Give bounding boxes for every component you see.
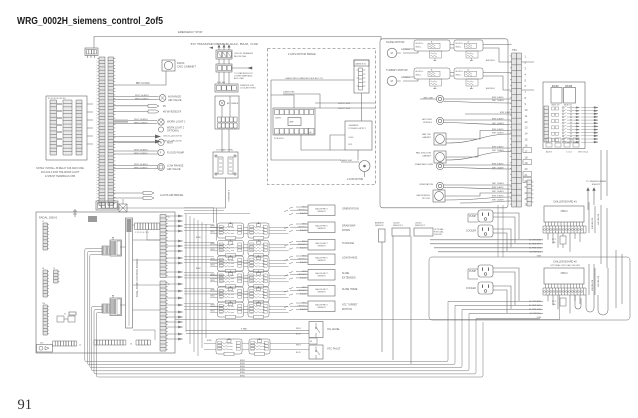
circuit breaker pole hatches [218, 52, 232, 58]
svg-text:AU3 B: AU3 B [546, 151, 552, 154]
svg-text:CHILLER BOARD #1: CHILLER BOARD #1 [553, 201, 577, 204]
wire strip to fans [114, 71, 167, 85]
svg-text:BRN4: BRN4 [240, 369, 245, 371]
wire coolant thru down [225, 178, 227, 208]
arrow into label [209, 47, 213, 49]
svg-text:SENSOR: SENSOR [318, 211, 327, 213]
chiller 2 terminal strip [543, 288, 586, 295]
svg-text:WHT 16 AWG: WHT 16 AWG [492, 149, 504, 152]
svg-text:SERVO BRN: SERVO BRN [338, 103, 351, 105]
filter cluster row 4 col 1 [218, 271, 244, 289]
chiller 2 label wires right [507, 301, 543, 313]
svg-text:HALL EFFECT: HALL EFFECT [315, 224, 328, 227]
svg-text:8 PAD: 8 PAD [241, 328, 248, 331]
relay box column 2 [63, 100, 72, 155]
svg-text:HALL EFFECT: HALL EFFECT [315, 256, 328, 259]
atc fault interconnect wires [204, 343, 309, 349]
svg-text:MIST: MIST [167, 140, 174, 144]
fadal T1 component [57, 316, 64, 322]
chiller 2 strip pins [546, 284, 583, 288]
filter row 2 interconnect wires [210, 245, 289, 251]
svg-text:BRN 16 AWG: BRN 16 AWG [492, 117, 504, 120]
svg-text:LOW RANGE: LOW RANGE [167, 164, 184, 168]
svg-text:COOLANT THRU: COOLANT THRU [240, 87, 256, 90]
svg-text:DUAL-TEMP CONTROL BOARD: DUAL-TEMP CONTROL BOARD [135, 259, 139, 297]
wire air lube to tb1 [420, 98, 512, 100]
svg-text:J8: J8 [42, 268, 44, 270]
svg-text:BRN 16 AWG: BRN 16 AWG [492, 195, 504, 198]
actuator circle draw bar down [436, 162, 443, 169]
connector squiggle box slide B [465, 43, 479, 60]
svg-text:4 WRS/BLU: 4 WRS/BLU [227, 190, 229, 202]
emergency stop contacts [86, 50, 96, 55]
svg-text:10AWG RED: 10AWG RED [283, 91, 295, 94]
svg-text:SENSOR: SENSOR [318, 307, 327, 309]
circuit breaker poles [218, 52, 232, 58]
chiller 2 u-turn wires [575, 264, 608, 315]
oil level switch box [309, 322, 323, 338]
svg-text:K8: K8 [310, 341, 312, 343]
svg-text:SPINDLE: SPINDLE [423, 122, 433, 124]
sensor drop wires [382, 236, 411, 364]
fuse on stalk above fadal [119, 204, 127, 212]
transformer feed arrows [218, 45, 230, 50]
fan-out wire merges [166, 216, 178, 339]
work light 2 circle [158, 127, 163, 132]
svg-text:BRN6: BRN6 [240, 375, 245, 377]
sensor lead wires slide [284, 272, 308, 280]
fadal J7 strip [43, 223, 48, 250]
interface board rows [562, 107, 564, 109]
interface relay K3K4 [564, 88, 576, 104]
coolant plug col2 [228, 157, 233, 174]
svg-text:BRN5: BRN5 [196, 237, 201, 239]
svg-text:J7: J7 [42, 221, 44, 223]
svg-text:SLIDE: SLIDE [342, 272, 350, 275]
atc fault switch symbol [316, 347, 320, 359]
cannon pin column [359, 68, 363, 90]
svg-text:COVER WASH AND: COVER WASH AND [234, 75, 253, 78]
wires orientation to tb1 [444, 185, 512, 189]
connector above fadal [96, 201, 118, 210]
svg-text:BL PWR WHT: BL PWR WHT [597, 276, 599, 288]
wire emergency stop run [94, 37, 381, 49]
svg-text:DOWN: DOWN [342, 229, 350, 232]
filter row 6 interconnect wires [210, 306, 289, 312]
dashed enclosure 2 axis motor brake [268, 49, 376, 185]
wires draw bar to tb1 [444, 165, 512, 169]
brake internal routing [271, 93, 362, 150]
svg-text:OPTIONAL FOR DUAL CHILLER: OPTIONAL FOR DUAL CHILLER [550, 264, 580, 267]
svg-text:J3/EX1: J3/EX1 [275, 118, 282, 120]
relay box column 1 [50, 100, 57, 155]
svg-text:91: 91 [18, 397, 33, 413]
svg-text:WHT-16 AWG: WHT-16 AWG [134, 163, 148, 166]
svg-text:J2: J2 [168, 284, 170, 286]
cooler 1 outlet body [478, 225, 493, 237]
svg-text:BRN 16 AWG: BRN 16 AWG [492, 186, 504, 189]
svg-text:BRN2: BRN2 [240, 363, 245, 365]
svg-text:LOW RANGE: LOW RANGE [342, 257, 358, 260]
branch arrow to starters [232, 67, 252, 69]
wires to flood pump [114, 151, 158, 154]
fan circle [164, 61, 172, 69]
svg-text:HI RANGE: HI RANGE [342, 242, 354, 245]
hall effect sensor box slide home [308, 286, 335, 297]
svg-text:PCB-0220: PCB-0220 [274, 138, 284, 140]
wires contactor to fuse block [219, 72, 229, 84]
fan-out arrowheads [178, 215, 184, 341]
svg-text:BRN 16 AWG: BRN 16 AWG [500, 111, 512, 114]
wires fan spindle to tb1 [445, 193, 512, 203]
svg-text:BELOW 30A: BELOW 30A [234, 55, 246, 58]
svg-text:SENSOR: SENSOR [375, 225, 384, 227]
main terminal strip wire number labels [96, 60, 98, 200]
svg-text:BRN5: BRN5 [211, 226, 215, 228]
svg-text:BRN-16 AWG: BRN-16 AWG [134, 152, 148, 155]
motor leads turret motor [397, 80, 401, 82]
svg-text:TO TRANSFORMER: TO TRANSFORMER [586, 180, 607, 183]
svg-text:PUMP: PUMP [469, 215, 476, 218]
atc brake terminals [218, 117, 238, 122]
svg-text:W/SLD-: W/SLD- [456, 75, 462, 77]
svg-text:CHILLER BOARD #2: CHILLER BOARD #2 [553, 261, 577, 264]
interface board left pin column [544, 106, 549, 142]
svg-text:M: M [160, 140, 162, 144]
wires to hi range valve [114, 97, 159, 100]
aux connector pins [532, 182, 534, 202]
svg-text:NOTE1: INSTALL J5 RELAY K26 AN: NOTE1: INSTALL J5 RELAY K26 AND FUSE [36, 167, 84, 170]
svg-text:1 2 3 4 5 6 7 8 9: 1 2 3 4 5 6 7 8 9 [135, 232, 149, 234]
svg-text:J1: J1 [168, 217, 170, 219]
svg-text:R7.2: R7.2 [552, 301, 556, 303]
chiller 1 label wires right [507, 240, 543, 252]
relay box A left outline [46, 96, 87, 160]
wires atc brake to coolant box [222, 129, 229, 152]
fan box fan spindle motor [433, 190, 445, 202]
relay box wires to strip [87, 104, 93, 144]
coolant plug screw br [234, 173, 236, 175]
svg-text:MOTOR: MOTOR [422, 198, 430, 200]
svg-text:SIEMENS: SIEMENS [349, 125, 359, 127]
coolant plug screw tr [234, 155, 236, 157]
bottom wire bundle [85, 249, 483, 378]
actuator circle air lube [436, 95, 443, 102]
svg-text:& SHUNT TERMINALS CB5: & SHUNT TERMINALS CB5 [45, 175, 76, 178]
interface board mid cells [552, 107, 555, 110]
svg-text:FAN JUNCTION: FAN JUNCTION [416, 152, 432, 155]
servo wires [315, 103, 376, 108]
svg-text:WHT 16 AWG: WHT 16 AWG [492, 99, 504, 102]
svg-text:1560-0: 1560-0 [560, 211, 568, 213]
fadal internal routing wires [120, 225, 160, 340]
filter cluster row 1 col 2 [248, 222, 269, 240]
pcb bottom terminal row [275, 129, 309, 135]
cannon pins [357, 70, 366, 86]
hall effect sensor box slide [308, 270, 335, 281]
connector loop turret A [414, 68, 450, 79]
wires breaker to contactor [219, 59, 229, 64]
svg-text:M: M [391, 51, 393, 55]
work light cross [159, 120, 163, 124]
hall effect sensor box draw bar [308, 222, 335, 233]
svg-text:W/SLD-: W/SLD- [456, 47, 462, 49]
motor 2 axis hub [364, 165, 366, 167]
oil level relay tag [309, 338, 317, 344]
connector loop slide B [454, 40, 483, 51]
svg-text:K1 K2 K3 K4 K5 K6: K1 K2 K3 K4 K5 K6 [48, 98, 66, 100]
amp relay box [288, 118, 301, 126]
svg-text:RED5: RED5 [211, 280, 215, 282]
svg-text:OPTIONAL: OPTIONAL [167, 130, 180, 133]
motor circle slide motor [387, 48, 397, 58]
svg-text:FADAL 1050-0: FADAL 1050-0 [39, 216, 58, 220]
svg-text:ORIENTATION: ORIENTATION [419, 183, 433, 186]
flood pump circle [158, 149, 164, 155]
hall effect sensor box hi range [308, 240, 335, 251]
coolant plug col1 [218, 157, 223, 174]
svg-text:B2A B72: B2A B72 [592, 183, 601, 186]
enclosure chiller 2 optional [429, 257, 630, 320]
svg-text:BLK/SLD+: BLK/SLD+ [456, 43, 464, 45]
svg-text:DRAW BAR: DRAW BAR [342, 225, 356, 228]
svg-text:GRD 134-0: GRD 134-0 [578, 152, 589, 154]
interface board bottom cell groups [546, 138, 552, 142]
svg-text:A/B RED4: A/B RED4 [486, 87, 495, 90]
svg-text:2 AXIS MOTOR: 2 AXIS MOTOR [347, 178, 364, 181]
fuse block cells [217, 86, 237, 91]
fadal K26 relay box [37, 345, 53, 353]
svg-text:RED5: RED5 [211, 249, 215, 251]
svg-text:HALL EFFECT: HALL EFFECT [315, 272, 328, 275]
cooler 1 outlet ground [484, 233, 487, 236]
transformer arrows right [587, 188, 595, 199]
fadal top pin symbol [73, 209, 77, 217]
svg-text:CABINET: CABINET [422, 136, 432, 139]
chiller 1 strip screws [544, 229, 546, 231]
actuator inner air lube [438, 97, 441, 100]
svg-text:AIR VALVE: AIR VALVE [167, 167, 181, 171]
actuator inner orientation coil [438, 184, 441, 187]
filter cluster row 3 col 1 [218, 255, 244, 273]
cannon connector label box [354, 60, 369, 66]
sensor lead wires low range [284, 256, 308, 264]
svg-text:SENSOR: SENSOR [318, 228, 327, 230]
svg-text:BRN-16 AWG: BRN-16 AWG [134, 121, 148, 124]
interface board row exit stubs [581, 107, 598, 143]
atc brake fuse circle [219, 100, 225, 106]
tick marks below e-stop [88, 56, 95, 59]
work light circle [158, 119, 164, 125]
svg-text:J6: J6 [130, 344, 132, 346]
valve low range circle [158, 164, 165, 171]
chiller 2 right verticals [589, 264, 595, 295]
svg-text:BLU3: BLU3 [296, 334, 301, 336]
svg-text:CIRCUIT BREAKER: CIRCUIT BREAKER [234, 52, 253, 55]
filter cluster row 2 col 1 [218, 240, 244, 258]
filter cluster atc fault col 1 [216, 338, 242, 356]
valve low range inner [159, 165, 163, 169]
TB1 boxed numbers [523, 148, 532, 153]
svg-text:RED5: RED5 [211, 232, 215, 234]
coolant plug screw bl [215, 173, 217, 175]
sensor lead wires draw bar [284, 224, 308, 232]
fadal ribbon connector 2 plug [102, 304, 109, 313]
connector loop slide A [414, 40, 450, 51]
svg-text:WHT 16 AWG: WHT 16 AWG [492, 190, 504, 193]
coolant plug screw tl [215, 155, 217, 157]
contactor poles [218, 66, 232, 71]
interface board outline [543, 82, 585, 149]
svg-text:RED3: RED3 [296, 345, 301, 347]
svg-text:R7.2: R7.2 [552, 239, 556, 241]
svg-text:TO STARTERS FOR: TO STARTERS FOR [234, 72, 253, 75]
atc brake terminals row2 [218, 123, 238, 128]
svg-text:ATC FAULT: ATC FAULT [327, 347, 341, 351]
svg-text:BL PWR BRN: BL PWR BRN [591, 280, 593, 292]
ambient sensor body [379, 229, 386, 242]
wires to arrow connectors [114, 137, 156, 142]
svg-text:COOLANT THRU: COOLANT THRU [216, 149, 234, 152]
svg-text:WHT 16 AWG: WHT 16 AWG [492, 166, 504, 169]
svg-text:F16 AU2-0 FOR THE WORK LIGHT: F16 AU2-0 FOR THE WORK LIGHT [41, 171, 80, 174]
svg-text:DRAW BAR DOWN: DRAW BAR DOWN [415, 163, 434, 166]
interface relay K1K2 [551, 88, 562, 104]
svg-text:BL PWR BRN: BL PWR BRN [591, 218, 593, 230]
svg-text:K26: K26 [40, 343, 43, 345]
svg-text:CB5-G3--AU2-B-P44: CB5-G3--AU2-B-P44 [163, 135, 183, 138]
svg-text:SLIDE HOME: SLIDE HOME [342, 288, 358, 291]
svg-text:BRN 16 AWG: BRN 16 AWG [492, 128, 504, 131]
pcb +B cell [308, 129, 314, 135]
chiller 2 strip screws [544, 291, 546, 293]
svg-text:CNC CABINET: CNC CABINET [177, 65, 196, 69]
filter row 1 interconnect wires [210, 227, 289, 233]
wire to mist [114, 142, 158, 144]
svg-text:W/SLD-: W/SLD- [416, 47, 422, 49]
pump cooler 2 wires [468, 268, 519, 313]
svg-text:CABINET: CABINET [422, 154, 432, 157]
svg-text:BRN5: BRN5 [211, 243, 215, 245]
siemens power supply box [345, 121, 372, 150]
cooler 2 outlet ground [484, 290, 487, 293]
sensor lead wires orientation [284, 207, 308, 215]
svg-text:RED3: RED3 [296, 328, 301, 330]
filter cluster row 4 col 2 [248, 271, 269, 289]
svg-text:AMBIENT: AMBIENT [375, 222, 385, 225]
svg-text:SENSOR: SENSOR [318, 291, 327, 293]
svg-text:STARTER FOR: STARTER FOR [240, 84, 254, 87]
svg-text:WHT 16 AWG: WHT 16 AWG [492, 199, 504, 202]
svg-text:COOLER: COOLER [466, 287, 476, 290]
fadal bottom row J5 [53, 341, 77, 346]
filter cluster row 1 col 1 [218, 222, 244, 240]
wire air lube 2 [444, 102, 512, 104]
contactor block [216, 64, 232, 72]
svg-text:A AXIS AIR BRAKE: A AXIS AIR BRAKE [160, 193, 184, 197]
arrow connectors work light feed [155, 135, 161, 144]
svg-text:WORK LIGHT 1: WORK LIGHT 1 [167, 120, 186, 124]
svg-text:SLIDE MOTOR: SLIDE MOTOR [386, 40, 405, 44]
svg-text:BRN5: BRN5 [196, 268, 201, 270]
svg-text:BRT-16 AWG: BRT-16 AWG [136, 82, 150, 85]
svg-text:2 AXIS MOTOR BRAKE: 2 AXIS MOTOR BRAKE [288, 52, 316, 56]
svg-text:AUG. PAN: AUG. PAN [234, 77, 244, 80]
svg-text:M: M [391, 79, 393, 83]
turret motor wiring [403, 73, 534, 91]
svg-text:TB1: TB1 [512, 48, 517, 52]
atc fault switch box [309, 345, 323, 359]
atc brake box [215, 96, 239, 129]
coolant feed verticals into bus [102, 206, 226, 241]
TB1 column 1 [512, 53, 517, 207]
power supply to motor wires [330, 135, 365, 177]
hall effect sensor box orientation [308, 205, 335, 216]
coolant plug pins [219, 159, 232, 171]
transformer arrow stubs [588, 199, 594, 210]
pump cooler 1 wires [468, 213, 519, 251]
svg-text:ORIENTATION: ORIENTATION [342, 208, 359, 211]
pump 2 outlet slots [483, 268, 489, 271]
liquid sensor 1 body [392, 228, 410, 236]
aux connector right of TB1 [527, 180, 532, 206]
svg-text:W/R RED4: W/R RED4 [401, 77, 410, 79]
cooler 2 outlet body [478, 282, 493, 294]
svg-text:EMERGENCY STOP: EMERGENCY STOP [178, 30, 203, 34]
svg-text:J10: J10 [42, 303, 45, 305]
wires to low range valve [114, 166, 158, 169]
connector emergency stop [85, 48, 98, 56]
svg-text:TURRET MOTOR: TURRET MOTOR [386, 68, 408, 72]
fadal right strip J2 [160, 281, 166, 351]
connector squiggle box turret A [428, 71, 442, 88]
svg-text:POWER SUPPLY: POWER SUPPLY [349, 128, 367, 130]
chiller 2 strip drops [548, 295, 580, 313]
fan circle fan spindle motor [435, 192, 444, 201]
valve hi range circle [159, 95, 166, 102]
cable bundle stub [114, 120, 128, 123]
connector squiggle box slide A [428, 43, 442, 60]
svg-text:1560-0: 1560-0 [560, 273, 568, 275]
filter cluster row 5 col 1 [218, 286, 244, 304]
svg-text:SENSOR: SENSOR [318, 245, 327, 247]
sensor lead wires slide home [284, 288, 308, 296]
filter row 3 interconnect wires [210, 260, 289, 266]
fadal small box [69, 312, 76, 315]
svg-text:SERVO WHT: SERVO WHT [338, 108, 351, 110]
svg-text:WRG_0002H_siemens_control_2of5: WRG_0002H_siemens_control_2of5 [17, 16, 163, 27]
filter cluster row 6 col 1 [218, 301, 244, 319]
fadal ribbon connector 2 [110, 296, 122, 316]
fadal right strip J1 [160, 215, 166, 278]
svg-text:BRN1: BRN1 [240, 360, 245, 362]
pump 1 outlet slots [483, 213, 489, 216]
svg-text:C1 C2: C1 C2 [566, 152, 573, 154]
wires fan junction to tb1 [446, 148, 512, 160]
pump 2 outlet ground [484, 273, 487, 276]
svg-text:HALL EFFECT: HALL EFFECT [315, 242, 328, 245]
oil level wires [186, 331, 309, 334]
fadal J8 strip [43, 270, 48, 297]
atc brake internal wires [222, 96, 230, 117]
svg-text:10AWG RED4 10AWG0FU2 AU1 AU2-T: 10AWG RED4 10AWG0FU2 AU1 AU2-T11 [285, 77, 324, 80]
svg-text:COOLER: COOLER [466, 230, 476, 233]
relay box column 3 [76, 100, 82, 155]
fadal ribbon connector 1 [110, 238, 122, 257]
a axis air brake lugs [143, 192, 154, 200]
svg-text:FU3 30A: FU3 30A [217, 81, 226, 84]
pump 2 outlet body [478, 265, 493, 277]
